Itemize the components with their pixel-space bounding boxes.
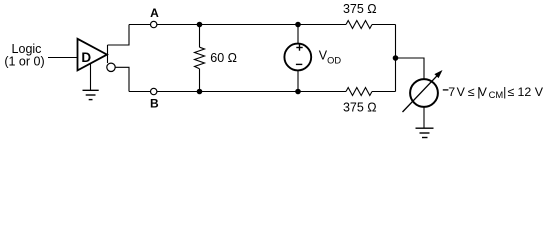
svg-text:60 Ω: 60 Ω	[210, 51, 237, 65]
node junction common mode tap	[393, 55, 399, 61]
wire input to driver	[48, 57, 78, 59]
wire R1 to right vertical	[372, 24, 396, 26]
voltage source VCM adjustable	[403, 70, 443, 112]
ground (driver)	[83, 90, 99, 99]
svg-text:A: A	[150, 6, 159, 20]
node junction bottom of VOD	[295, 89, 301, 95]
wire noninverting output to corner	[108, 25, 130, 46]
svg-text:375 Ω: 375 Ω	[343, 101, 377, 115]
terminal B	[151, 88, 157, 94]
wire VOD to bottom rail	[297, 71, 299, 92]
ground (VCM)	[416, 128, 434, 137]
wire top rail to VOD	[297, 25, 299, 44]
svg-text:7V≤|VCM|≤12 V: 7V≤|VCM|≤12 V	[448, 85, 543, 100]
wire right vertical	[395, 25, 397, 92]
inverting output bubble	[107, 63, 115, 71]
svg-text:B: B	[150, 97, 159, 111]
wire inverting output to corner	[115, 67, 129, 91]
wire R3 to right vertical	[372, 91, 396, 93]
resistor R2 60 ohm	[195, 25, 205, 92]
label Logic (1 or 0)	[4, 42, 44, 69]
node junction top of R2	[197, 22, 203, 28]
resistor R1 375 ohm top	[346, 21, 372, 29]
wire top rail A to R1	[157, 24, 346, 26]
svg-text:(1 or 0): (1 or 0)	[4, 55, 44, 69]
wire driver to ground	[90, 64, 92, 90]
terminal A	[151, 21, 157, 27]
driver U1	[78, 39, 108, 71]
wire bottom rail B to R3	[157, 91, 346, 93]
label VCM range minus dash	[443, 89, 449, 91]
svg-text:375 Ω: 375 Ω	[343, 2, 377, 16]
wire tap to VCM source	[396, 58, 425, 79]
resistor R3 375 ohm bottom	[346, 88, 372, 96]
node junction bottom of R2	[197, 89, 203, 95]
svg-text:VOD: VOD	[319, 49, 342, 66]
wire VCM to ground	[423, 107, 425, 128]
wire output stub at driver tip	[107, 45, 109, 63]
wire corner to terminal A	[129, 24, 150, 26]
wire corner to terminal B	[129, 91, 150, 93]
node junction top of VOD	[295, 22, 301, 28]
voltage source VOD	[284, 44, 311, 71]
svg-text:D: D	[81, 50, 91, 65]
